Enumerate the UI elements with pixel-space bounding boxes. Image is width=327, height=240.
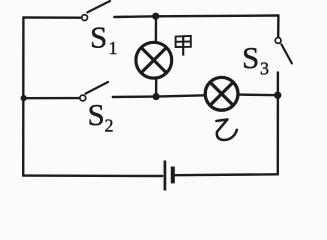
right vertical wire lower segment <box>277 72 280 174</box>
label S2 <box>88 97 114 136</box>
svg-text:S: S <box>88 97 105 132</box>
right vertical wire upper segment <box>277 16 280 38</box>
lamp yi (bulb symbol) <box>205 77 238 110</box>
wire from lamp yi to right node <box>238 93 278 96</box>
label S3 <box>242 40 269 79</box>
node junction left (middle branch from left wire) <box>21 95 27 101</box>
wire from top node down to lamp jia <box>155 16 158 42</box>
svg-text:S: S <box>242 40 259 75</box>
wire middle segment (S2 to node below lamp jia) <box>113 95 156 98</box>
node junction right (lamp yi branch meets S3 branch) <box>274 92 281 99</box>
wire from lamp jia down to middle node <box>155 78 157 96</box>
wire middle-left segment (left node to S2) <box>24 97 80 99</box>
label jia (Chinese character, lamp A) drawn as strokes <box>176 36 191 56</box>
switch S2 <box>80 82 108 101</box>
switch S1 <box>82 1 110 21</box>
left vertical wire <box>22 18 25 176</box>
svg-text:S: S <box>90 20 107 55</box>
wire from middle node to lamp yi <box>156 95 205 96</box>
label S1 <box>90 20 118 58</box>
node junction below lamp jia <box>153 93 160 100</box>
wire top-left horizontal segment <box>24 16 82 19</box>
label yi (Chinese character, lamp B) drawn as strokes <box>216 119 237 140</box>
svg-text:2: 2 <box>105 115 114 135</box>
wire top-right horizontal segment <box>156 14 279 17</box>
wire bottom-left horizontal segment <box>23 174 162 177</box>
svg-text:1: 1 <box>109 38 118 58</box>
svg-text:3: 3 <box>260 59 269 79</box>
wire bottom-right horizontal segment <box>175 173 278 176</box>
battery cell <box>165 161 173 191</box>
wire top middle segment (S1 to node above lamp jia) <box>114 15 155 18</box>
node junction above lamp jia <box>152 13 159 20</box>
lamp jia (bulb symbol) <box>136 42 172 78</box>
switch S3 <box>275 38 292 64</box>
